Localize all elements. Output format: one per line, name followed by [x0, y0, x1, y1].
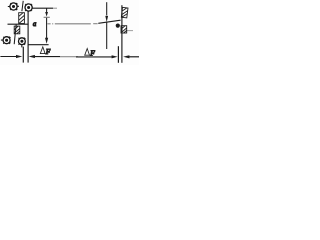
left contact bar (right figure) — [117, 46, 119, 63]
contact screw K3 (bottom-left circle) — [1, 37, 11, 44]
centerline (dash-dot to right figure) — [47, 23, 97, 25]
contact arm lower (flat spring between bottom screws) — [14, 25, 16, 45]
guide bushing lower (hatched block) — [14, 26, 20, 34]
force arrow onto rod top (short down arrow) — [45, 8, 48, 16]
lever (right figure) — [98, 20, 120, 23]
contact screw K4 (bottom-right circle) — [19, 38, 26, 48]
left contact bar (bottom pair) — [22, 47, 24, 63]
transfer rod with lower arrowhead — [45, 18, 48, 44]
top lever (horizontal line from K2 to right) — [32, 7, 53, 9]
anvil line under arrow tip — [44, 16, 50, 18]
main lever (horizontal, left figure) — [8, 23, 29, 25]
svg-text:a: a — [33, 21, 37, 28]
guide bushing upper right (hatched block) — [121, 7, 128, 17]
label dF left — [40, 47, 45, 54]
pressing arrow into contacts (left side head) — [112, 55, 118, 58]
svg-text:F: F — [45, 47, 51, 56]
guide bushing upper (hatched block) — [19, 13, 25, 24]
contact arm upper (flat spring between screws) — [22, 1, 23, 11]
pivot contact dot on lever — [116, 24, 120, 28]
stray guide base line — [127, 30, 133, 32]
label dF right — [85, 49, 90, 56]
contact screw K2 (second top circle) — [25, 4, 32, 11]
right pressing arrow (from right edge) — [123, 55, 139, 58]
left pressing arrow — [0, 55, 22, 58]
rod (right figure, becomes right contact bar) — [121, 5, 123, 63]
svg-text:F: F — [89, 48, 95, 57]
contact screw K1 (top-left circle with knurl ticks) — [8, 3, 19, 10]
right pressing arrow / long bottom line — [29, 55, 113, 58]
schematic figure: contact sensor mechanism, two variants — [0, 0, 139, 65]
force arrow P (vertical, through lever) — [105, 2, 108, 49]
guide bushing lower right (hatched block) — [121, 26, 127, 33]
base contact line — [28, 44, 49, 46]
measuring rod (vertical, becomes right contact bar) — [27, 11, 29, 62]
